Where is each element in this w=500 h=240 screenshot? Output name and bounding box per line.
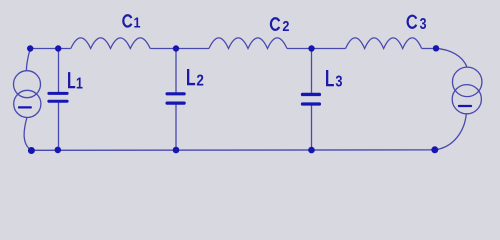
source I2 minus bar [458, 105, 472, 107]
node B4 [431, 146, 438, 153]
label C3 letter C [408, 16, 417, 28]
inductor C1 [71, 38, 150, 49]
label L2 letter L [187, 69, 195, 85]
source I2 top circle [452, 67, 482, 97]
inductor C2 [209, 38, 287, 49]
node B3 [308, 147, 315, 154]
node T3 [308, 45, 314, 51]
node T0 [27, 45, 33, 51]
node B1 [55, 147, 62, 154]
capacitor L2 bottom plate [166, 102, 186, 105]
source I2 bottom circle [452, 85, 481, 114]
wire right source bottom to node B4 [435, 114, 467, 150]
label L1 letter L [68, 72, 75, 88]
wire shunt branch 2 lower [175, 105, 177, 151]
node T2 [173, 45, 179, 51]
node T4 [433, 45, 439, 51]
capacitor L1 bottom plate [47, 100, 68, 103]
source I1 minus bar [18, 106, 32, 108]
source I1 bottom circle [14, 90, 41, 117]
wire node T0 to left source top [26, 49, 30, 71]
capacitor L2 top plate [166, 92, 186, 95]
wire top rail left segment [30, 48, 71, 50]
wire shunt branch 3 lower [311, 105, 313, 150]
wire left source bottom to node B0 [24, 118, 31, 151]
wire shunt branch 1 lower [58, 103, 60, 151]
wire shunt branch 1 upper [58, 49, 60, 93]
node B0 [28, 147, 35, 154]
svg-text:1: 1 [76, 75, 83, 93]
wire coil2 to node3 [287, 48, 346, 50]
svg-text:2: 2 [196, 73, 203, 90]
capacitor L1 top plate [47, 92, 68, 95]
node B2 [173, 147, 180, 154]
source I1 top circle [14, 71, 41, 98]
inductor C3 [346, 38, 422, 49]
svg-text:2: 2 [282, 18, 289, 34]
svg-text:3: 3 [420, 14, 427, 32]
wire bottom rail [31, 149, 434, 151]
wire node T4 to right source top [436, 48, 467, 67]
capacitor L3 bottom plate [301, 102, 321, 105]
capacitor L3 top plate [301, 93, 321, 96]
wire coil1 to node2 [150, 48, 209, 50]
label C1 letter C [123, 15, 131, 26]
svg-text:3: 3 [335, 73, 342, 91]
wire shunt branch 3 upper [311, 49, 313, 94]
wire shunt branch 2 upper [175, 49, 177, 93]
svg-text:1: 1 [134, 15, 141, 31]
label C2 letter C [271, 18, 279, 30]
label L3 letter L [326, 70, 334, 86]
wire coil3 to node4 [422, 48, 436, 50]
node T1 [55, 45, 61, 51]
